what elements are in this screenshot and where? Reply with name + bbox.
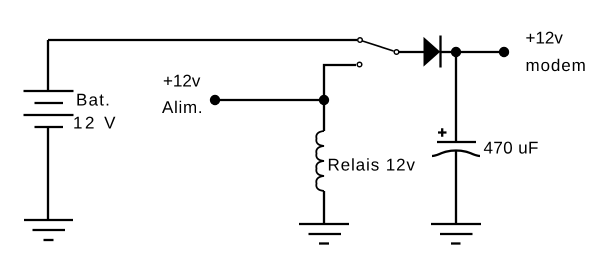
label modem line2 <box>527 59 585 71</box>
wire junction down to relay coil <box>323 100 325 131</box>
diode D1 triangle <box>424 38 440 66</box>
switch arm SW1 <box>363 41 394 51</box>
wire battery bottom to ground <box>47 127 49 220</box>
wire left vertical battery top <box>47 40 49 91</box>
node dot junction relay <box>319 95 329 105</box>
wire switch to diode <box>399 51 424 53</box>
wire Alim to junction <box>215 99 324 101</box>
label +12v Alim line1 <box>164 75 201 87</box>
wire junction to modem terminal <box>456 51 504 53</box>
label Bat. <box>77 94 108 106</box>
switch contact lower <box>357 62 362 67</box>
ground capacitor <box>431 223 481 225</box>
wire capacitor to ground <box>455 151 457 224</box>
node dot junction diode <box>451 47 461 57</box>
relay coil L1 <box>316 131 324 191</box>
switch contact top <box>358 38 363 43</box>
node dot +12v Alim <box>210 95 220 105</box>
node dot +12v modem <box>499 47 509 57</box>
wire diode to junction dot <box>441 51 456 53</box>
wire coil bottom to ground <box>323 191 325 224</box>
capacitor C1 curved plate <box>432 151 480 157</box>
label +12v modem line1 <box>526 32 563 44</box>
label 470 uF <box>484 142 538 154</box>
label Alim. line2 <box>162 101 201 113</box>
diode D1 cathode bar <box>439 36 441 68</box>
capacitor plus sign <box>438 128 447 136</box>
wire top horizontal from battery to switch <box>48 39 357 41</box>
ground relay <box>299 223 349 225</box>
label 12 V <box>74 117 115 129</box>
ground battery <box>24 219 73 221</box>
capacitor C1 top plate <box>437 141 476 143</box>
label Relais 12v <box>329 158 415 171</box>
switch contact common <box>394 50 399 55</box>
wire junction down to capacitor <box>455 52 457 142</box>
wire junction up to switch lower contact <box>324 65 356 100</box>
battery BT1 plates <box>24 90 74 92</box>
